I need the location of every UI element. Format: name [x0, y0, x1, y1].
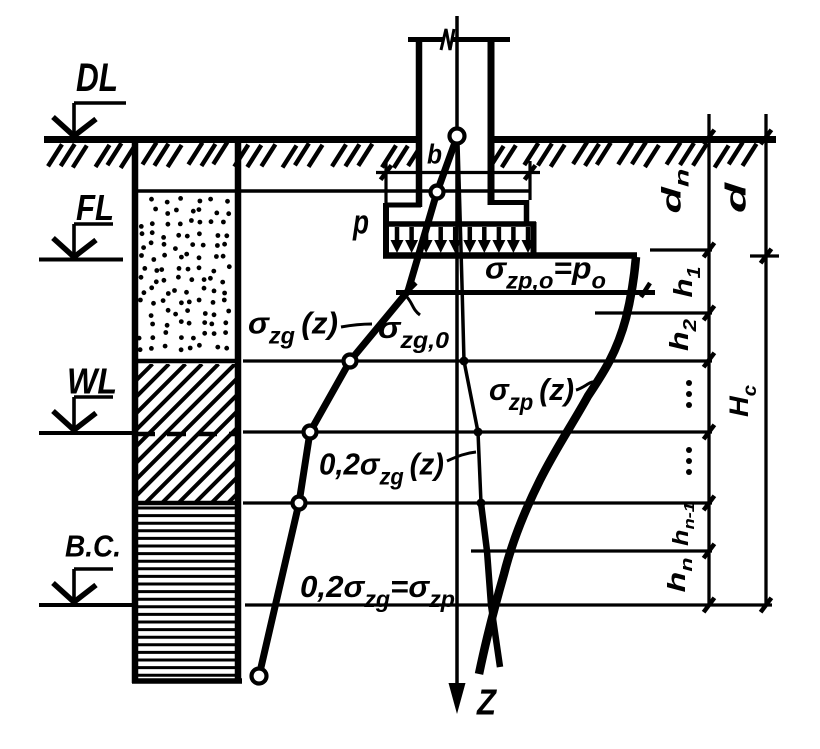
svg-text:b: b: [427, 139, 442, 170]
svg-text:Z: Z: [476, 682, 498, 723]
svg-text:WL: WL: [67, 361, 117, 402]
svg-text:p: p: [352, 204, 369, 242]
svg-text:FL: FL: [76, 187, 114, 228]
svg-text:DL: DL: [76, 56, 118, 100]
svg-text:B.C.: B.C.: [65, 529, 121, 564]
svg-text:d: d: [721, 181, 753, 213]
